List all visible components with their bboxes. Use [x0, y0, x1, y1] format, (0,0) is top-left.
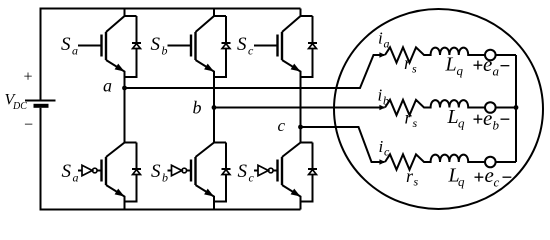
svg-text:q: q: [457, 63, 464, 78]
svg-text:−: −: [502, 168, 513, 189]
svg-text:L: L: [445, 54, 457, 76]
svg-text:b: b: [162, 171, 168, 185]
svg-text:e: e: [485, 163, 494, 187]
svg-text:i: i: [378, 86, 383, 105]
svg-text:e: e: [483, 52, 492, 76]
svg-text:q: q: [458, 174, 465, 189]
svg-text:S: S: [61, 34, 71, 55]
svg-text:c: c: [248, 44, 254, 58]
svg-text:+: +: [24, 69, 33, 86]
svg-text:S: S: [237, 34, 247, 55]
svg-text:L: L: [447, 106, 459, 128]
svg-text:r: r: [405, 108, 413, 128]
svg-text:e: e: [483, 106, 492, 130]
svg-text:c: c: [249, 171, 255, 185]
svg-text:i: i: [378, 29, 383, 48]
svg-text:−: −: [500, 110, 511, 131]
svg-text:S: S: [151, 161, 161, 182]
svg-text:b: b: [383, 94, 389, 108]
svg-text:c: c: [494, 175, 500, 190]
svg-text:a: a: [384, 37, 390, 51]
svg-text:c: c: [278, 116, 286, 135]
svg-text:a: a: [73, 171, 79, 185]
svg-text:S: S: [151, 34, 161, 55]
svg-text:a: a: [72, 44, 78, 58]
svg-text:c: c: [384, 145, 390, 159]
svg-text:−: −: [500, 56, 511, 77]
svg-text:i: i: [379, 137, 384, 156]
svg-text:q: q: [458, 116, 465, 131]
svg-text:r: r: [404, 53, 412, 73]
svg-text:+: +: [473, 110, 484, 131]
svg-text:b: b: [162, 44, 168, 58]
svg-text:s: s: [413, 116, 418, 130]
svg-text:s: s: [414, 175, 419, 189]
svg-text:+: +: [474, 168, 485, 189]
svg-text:−: −: [24, 117, 33, 134]
svg-text:a: a: [103, 76, 112, 96]
svg-text:S: S: [238, 161, 248, 182]
svg-text:a: a: [493, 64, 500, 79]
svg-text:s: s: [412, 62, 417, 76]
svg-text:S: S: [62, 161, 72, 182]
svg-text:+: +: [473, 56, 484, 77]
svg-text:b: b: [493, 118, 500, 133]
svg-text:b: b: [193, 98, 202, 118]
svg-text:DC: DC: [12, 101, 27, 112]
